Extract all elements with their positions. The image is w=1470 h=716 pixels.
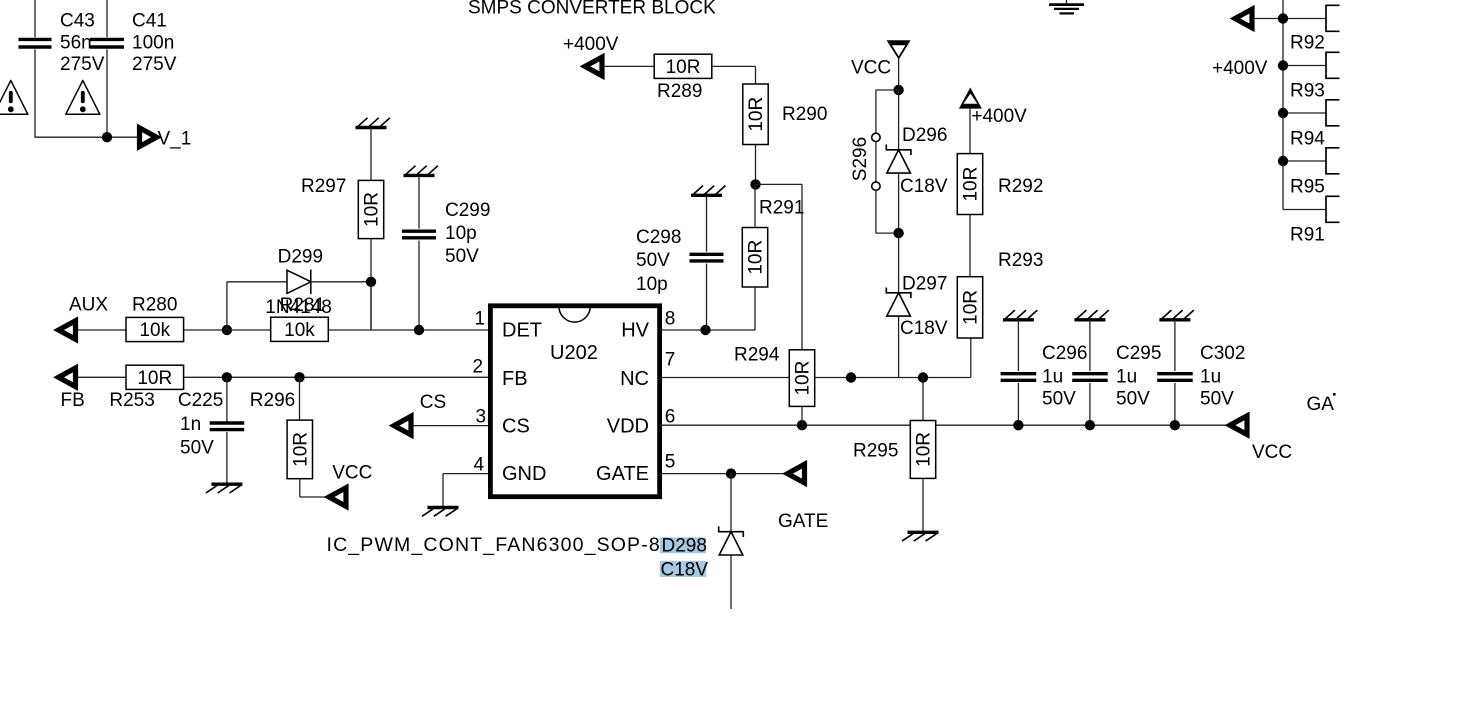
junction D296/D297 bbox=[893, 228, 903, 238]
capacitor C298 bbox=[690, 254, 724, 261]
wire D297 to NC net bbox=[898, 316, 900, 377]
wire R296 down bbox=[299, 479, 301, 497]
op-amp U202 IC body (FAN6300 SOP-8) bbox=[490, 306, 659, 497]
wire to C225 bbox=[226, 377, 228, 422]
svg-text:R94: R94 bbox=[1290, 129, 1325, 150]
svg-text:R290: R290 bbox=[782, 104, 827, 125]
svg-text:HV: HV bbox=[621, 320, 649, 342]
svg-text:7: 7 bbox=[665, 350, 676, 371]
svg-text:10R: 10R bbox=[914, 432, 935, 467]
diode D299 bbox=[287, 270, 311, 295]
junction bus/R95 bbox=[1278, 156, 1288, 166]
wire gnd to C299 bbox=[418, 175, 420, 228]
svg-text:GATE: GATE bbox=[596, 463, 649, 485]
warning symbol 1 bbox=[0, 80, 28, 114]
wire bus to R92 bbox=[1283, 18, 1326, 20]
resistor R290 bbox=[743, 84, 768, 145]
wire C296 to VDD bbox=[1017, 383, 1019, 425]
svg-text:GND: GND bbox=[502, 463, 546, 485]
resistor R296 bbox=[287, 420, 312, 479]
junction bus/R92 bbox=[1278, 13, 1288, 23]
spark gap S296 lower contact bbox=[872, 182, 880, 190]
junction VCC/S296 bbox=[893, 85, 903, 95]
svg-text:C18V: C18V bbox=[900, 176, 948, 197]
wire node to R294 column bbox=[756, 183, 803, 185]
svg-text:2: 2 bbox=[473, 357, 484, 378]
svg-text:10R: 10R bbox=[666, 57, 701, 78]
junction NC net/R295 bbox=[918, 372, 928, 382]
svg-text:10R: 10R bbox=[961, 167, 982, 202]
resistor R280 bbox=[126, 317, 184, 341]
wire R294 to VDD bbox=[801, 406, 803, 425]
zener diode D297 bbox=[886, 288, 911, 317]
svg-text:V_1: V_1 bbox=[158, 129, 192, 150]
port VCC arrow (R296) bbox=[329, 488, 346, 507]
wire C41 top bbox=[106, 0, 108, 37]
wire R295 to ground bbox=[922, 478, 924, 530]
wire bus to R94 bbox=[1283, 112, 1326, 114]
resistor R91 (partial) bbox=[1326, 196, 1340, 222]
svg-text:C43: C43 bbox=[60, 11, 95, 32]
junction R296 bbox=[294, 372, 304, 382]
svg-text:+400V: +400V bbox=[1212, 58, 1268, 79]
wire FB to R253 bbox=[78, 376, 127, 378]
svg-text:GATE: GATE bbox=[778, 511, 828, 532]
resistor R253 bbox=[126, 365, 184, 389]
junction C296/VDD bbox=[1013, 420, 1023, 430]
wire C43 top bbox=[34, 0, 36, 37]
warning symbol 2 bbox=[66, 80, 100, 114]
wire to D297 bbox=[898, 233, 900, 293]
wire C41 bottom bbox=[106, 49, 108, 137]
wire R292 to R293 bbox=[969, 215, 971, 277]
svg-text:GA: GA bbox=[1307, 394, 1335, 415]
svg-text:VCC: VCC bbox=[1252, 442, 1292, 463]
wire VCC down bbox=[898, 59, 900, 90]
junction D299/R297 bbox=[366, 277, 376, 287]
chassis ground C299 bbox=[404, 166, 438, 176]
svg-text:C18V: C18V bbox=[900, 318, 948, 339]
svg-text:50V: 50V bbox=[636, 250, 670, 271]
wire to S296 branch bbox=[876, 89, 899, 91]
wire +400V bus bbox=[1282, 0, 1284, 210]
wire down from D299 node bbox=[370, 282, 372, 330]
wire gnd to C298 bbox=[706, 195, 708, 251]
resistor R289 bbox=[654, 54, 712, 78]
svg-text:R291: R291 bbox=[759, 198, 804, 219]
wire arrow to bus bbox=[1254, 18, 1284, 20]
chassis ground C225 bbox=[206, 484, 243, 493]
chassis ground C302 bbox=[1159, 310, 1193, 320]
svg-text:D297: D297 bbox=[902, 274, 947, 295]
svg-text:R92: R92 bbox=[1290, 33, 1325, 54]
svg-text:50V: 50V bbox=[1116, 389, 1150, 410]
port V_1 arrow bbox=[140, 128, 157, 147]
capacitor C299 bbox=[402, 231, 436, 238]
wire NC to R295 bbox=[922, 378, 924, 421]
wire down to R294 bbox=[801, 184, 803, 349]
svg-text:D298: D298 bbox=[662, 536, 707, 557]
wire C298 to pin8 net bbox=[706, 264, 708, 330]
junction bus/R93 bbox=[1278, 60, 1288, 70]
svg-text:C296: C296 bbox=[1042, 343, 1087, 364]
svg-text:R93: R93 bbox=[1290, 81, 1325, 102]
port FB arrow bbox=[59, 368, 76, 387]
wire NC net up to R293 bbox=[970, 338, 972, 378]
svg-text:IC_PWM_CONT_FAN6300_SOP-8: IC_PWM_CONT_FAN6300_SOP-8 bbox=[327, 534, 661, 556]
svg-text:56n: 56n bbox=[60, 33, 92, 54]
svg-text:+400V: +400V bbox=[971, 106, 1027, 127]
wire to V_1 bbox=[34, 136, 139, 138]
wire pin 7 NC net bbox=[660, 377, 971, 379]
svg-text:D296: D296 bbox=[902, 125, 947, 146]
svg-text:AUX: AUX bbox=[69, 295, 108, 316]
wire C225 to ground bbox=[226, 432, 228, 483]
junction C302/VDD bbox=[1170, 420, 1180, 430]
wire R296 to VCC bbox=[300, 496, 329, 498]
svg-text:DET: DET bbox=[502, 320, 542, 342]
chassis ground C296 bbox=[1003, 310, 1037, 320]
port +400V arrow (R289) bbox=[585, 57, 602, 76]
wire pin 6 VDD net bbox=[660, 424, 1230, 426]
svg-text:10R: 10R bbox=[291, 432, 312, 467]
svg-text:C302: C302 bbox=[1200, 343, 1245, 364]
wire pin 4 to ground bbox=[443, 473, 490, 475]
wire pin 8 to R291 bbox=[660, 329, 756, 331]
spark gap S296 upper contact bbox=[872, 133, 880, 141]
svg-text:R95: R95 bbox=[1290, 177, 1325, 198]
svg-text:8: 8 bbox=[665, 309, 676, 330]
wire pin 5 GATE bbox=[660, 473, 787, 475]
svg-text:10p: 10p bbox=[445, 223, 477, 244]
junction C299/pin1 net bbox=[414, 325, 424, 335]
capacitor C225 bbox=[210, 423, 245, 430]
svg-text:D299: D299 bbox=[278, 247, 323, 268]
svg-text:10k: 10k bbox=[139, 320, 170, 341]
resistor R93 (partial) bbox=[1326, 52, 1340, 78]
chassis ground R295 bbox=[902, 532, 939, 541]
wire C43 bottom bbox=[34, 49, 36, 137]
svg-text:5: 5 bbox=[665, 452, 676, 473]
wire to D299 anode bbox=[227, 281, 287, 283]
svg-text:R289: R289 bbox=[657, 81, 702, 102]
svg-text:50V: 50V bbox=[1200, 389, 1234, 410]
svg-text:3: 3 bbox=[476, 407, 487, 428]
wire +400V to R289 bbox=[604, 65, 655, 67]
chassis ground GND pin bbox=[422, 508, 459, 517]
svg-text:275V: 275V bbox=[132, 54, 177, 75]
wire R253 to pin 2 bbox=[184, 376, 490, 378]
wire CS to pin 3 bbox=[413, 425, 490, 427]
wire D298 anode bbox=[730, 555, 732, 609]
svg-text:VCC: VCC bbox=[332, 463, 372, 484]
junction C295/VDD bbox=[1085, 420, 1095, 430]
wire up to D299 bbox=[226, 282, 228, 330]
svg-text:50V: 50V bbox=[180, 438, 214, 459]
svg-text:R297: R297 bbox=[301, 176, 346, 197]
svg-text:C225: C225 bbox=[178, 390, 223, 411]
svg-text:10p: 10p bbox=[636, 274, 668, 295]
svg-text:50V: 50V bbox=[445, 246, 479, 267]
highlight D298 bbox=[660, 537, 706, 553]
svg-text:10R: 10R bbox=[137, 368, 172, 389]
svg-text:50V: 50V bbox=[1042, 389, 1076, 410]
resistor R94 (partial) bbox=[1326, 100, 1340, 126]
junction R290/R291/R294 bbox=[750, 179, 760, 189]
svg-text:FB: FB bbox=[502, 368, 528, 390]
port AUX arrow bbox=[59, 321, 76, 340]
wire gnd to C295 bbox=[1089, 320, 1091, 371]
wire VCC to D296 bbox=[898, 90, 900, 150]
junction C225 bbox=[222, 372, 232, 382]
resistor R95 (partial) bbox=[1326, 148, 1340, 174]
wire C299 to AUX net bbox=[418, 241, 420, 331]
svg-text:R292: R292 bbox=[998, 176, 1043, 197]
capacitor C302 bbox=[1157, 374, 1193, 381]
earth ground bbox=[1049, 0, 1084, 13]
zener diode D296 bbox=[886, 145, 911, 174]
capacitor C41 bbox=[90, 39, 124, 47]
wire R280 to node bbox=[184, 329, 227, 331]
junction D298/GATE bbox=[726, 468, 736, 478]
wire bus to R91 bbox=[1283, 209, 1326, 211]
wire S296 middle bbox=[875, 141, 877, 182]
wire +400V to R292 bbox=[969, 108, 971, 154]
svg-text:U202: U202 bbox=[550, 342, 598, 364]
wire down to R290 bbox=[755, 66, 757, 84]
junction R294/VDD bbox=[797, 420, 807, 430]
svg-text:VCC: VCC bbox=[851, 58, 891, 79]
svg-text:R296: R296 bbox=[250, 390, 295, 411]
svg-text:R294: R294 bbox=[734, 345, 780, 366]
zener diode D298 bbox=[719, 526, 744, 555]
svg-text:R295: R295 bbox=[853, 441, 898, 462]
wire node to R281 bbox=[227, 329, 271, 331]
svg-text:1u: 1u bbox=[1200, 367, 1221, 388]
junction bus/R94 bbox=[1278, 108, 1288, 118]
svg-text:SMPS CONVERTER BLOCK: SMPS CONVERTER BLOCK bbox=[468, 0, 716, 18]
resistor R293 bbox=[957, 277, 982, 338]
svg-text:C298: C298 bbox=[636, 227, 681, 248]
resistor R281 bbox=[271, 317, 329, 341]
wire C295 to VDD bbox=[1089, 383, 1091, 425]
wire gnd to C296 bbox=[1017, 320, 1019, 371]
svg-text:+400V: +400V bbox=[563, 34, 619, 55]
junction R280/D299 bbox=[222, 325, 232, 335]
resistor R291 bbox=[742, 228, 767, 288]
svg-text:CS: CS bbox=[502, 416, 530, 438]
svg-text:C295: C295 bbox=[1116, 343, 1161, 364]
wire R291 to pin8 net bbox=[754, 287, 756, 330]
resistor R92 (partial) bbox=[1326, 5, 1340, 31]
svg-text:VDD: VDD bbox=[607, 416, 649, 438]
wire node to R291 bbox=[754, 184, 756, 227]
wire to R296 bbox=[299, 377, 301, 420]
svg-text:1n: 1n bbox=[180, 414, 201, 435]
wire D299 cathode to node bbox=[311, 281, 371, 283]
svg-text:10R: 10R bbox=[746, 240, 767, 275]
svg-text:275V: 275V bbox=[60, 54, 105, 75]
svg-text:NC: NC bbox=[620, 368, 649, 390]
chassis ground C295 bbox=[1074, 310, 1108, 320]
resistor R297 bbox=[358, 180, 383, 238]
junction NC net 1 bbox=[846, 372, 856, 382]
port GATE arrow bbox=[788, 464, 805, 483]
wire down to ground bbox=[442, 474, 444, 506]
svg-text:4: 4 bbox=[474, 455, 485, 476]
svg-text:C41: C41 bbox=[132, 11, 167, 32]
highlight C18V (D298 value) bbox=[660, 561, 707, 577]
svg-text:1u: 1u bbox=[1116, 367, 1137, 388]
chassis ground R297 bbox=[356, 118, 390, 128]
resistor R294 bbox=[789, 350, 814, 407]
junction C298/pin8 bbox=[700, 325, 710, 335]
svg-text:10k: 10k bbox=[284, 320, 315, 341]
wire R297 to AUX net bbox=[370, 239, 372, 330]
svg-text:10R: 10R bbox=[362, 192, 383, 227]
svg-text:R293: R293 bbox=[998, 250, 1043, 271]
capacitor C296 bbox=[1001, 374, 1037, 381]
wire S296 top bbox=[875, 90, 877, 134]
port VCC arrow (VDD) bbox=[1230, 416, 1247, 435]
svg-text:FB: FB bbox=[61, 390, 85, 411]
svg-text:R91: R91 bbox=[1290, 225, 1325, 246]
wire R281 to pin 1 bbox=[329, 329, 490, 331]
capacitor C295 bbox=[1072, 374, 1108, 381]
wire S296 to node bbox=[876, 232, 899, 234]
wire D296 to node bbox=[898, 173, 900, 233]
svg-text:C18V: C18V bbox=[661, 560, 709, 581]
svg-text:1u: 1u bbox=[1042, 367, 1063, 388]
port CS arrow bbox=[394, 416, 411, 435]
svg-text:1N4148: 1N4148 bbox=[265, 297, 332, 318]
wire R289 to R290 bbox=[712, 65, 756, 67]
wire bus to R95 bbox=[1283, 160, 1326, 162]
svg-text:C299: C299 bbox=[445, 200, 490, 221]
wire AUX to R280 bbox=[78, 329, 127, 331]
svg-text:10R: 10R bbox=[746, 97, 767, 132]
power +400V symbol (up triangle) bbox=[959, 88, 982, 109]
svg-text:10R: 10R bbox=[793, 361, 814, 396]
svg-text:6: 6 bbox=[665, 407, 676, 428]
svg-text:10R: 10R bbox=[961, 290, 982, 325]
port +400V arrow (right) bbox=[1235, 9, 1252, 28]
capacitor C43 bbox=[19, 39, 52, 47]
svg-text:CS: CS bbox=[420, 392, 446, 413]
wire GATE to D298 bbox=[730, 474, 732, 532]
wire gnd to C302 bbox=[1174, 320, 1176, 371]
resistor R292 bbox=[957, 154, 982, 215]
wire S296 bottom bbox=[875, 190, 877, 233]
svg-text:100n: 100n bbox=[132, 33, 174, 54]
chassis ground C298 bbox=[691, 186, 725, 196]
wire bus to R93 bbox=[1283, 65, 1326, 67]
svg-text:R253: R253 bbox=[109, 390, 154, 411]
junction at C41/V_1 bbox=[102, 132, 112, 142]
resistor R295 bbox=[910, 421, 935, 479]
svg-text:R280: R280 bbox=[132, 295, 177, 316]
wire gnd to R297 bbox=[370, 128, 372, 181]
wire R290 to node bbox=[755, 145, 757, 185]
svg-text:1: 1 bbox=[475, 309, 486, 330]
wire C302 to VDD bbox=[1174, 383, 1176, 425]
svg-text:S296: S296 bbox=[850, 137, 871, 181]
power VCC symbol (down triangle) bbox=[887, 40, 911, 59]
